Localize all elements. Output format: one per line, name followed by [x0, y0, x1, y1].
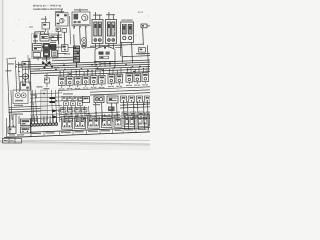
center riser b [67, 106, 70, 122]
wire meter down [45, 57, 47, 63]
coil condenser C2 [82, 38, 87, 49]
wire left bus c [9, 111, 41, 112]
scattered junction dots [15, 66, 145, 119]
cigarette lighter CL1 [114, 114, 122, 128]
left tag b [6, 70, 12, 71]
center riser c [71, 106, 74, 122]
coil 1 label [93, 15, 102, 16]
cluster tag b [50, 42, 56, 43]
cross wire e [30, 110, 62, 111]
distributor DST1 [95, 47, 115, 62]
wiper motor M3 [94, 96, 104, 103]
cluster tag a [33, 40, 38, 41]
right harness tag [138, 53, 145, 54]
bus wire 3 [22, 64, 150, 69]
heater switch S16 [107, 96, 118, 103]
bus wire 4 [30, 67, 150, 72]
right riser d [137, 101, 138, 130]
wire gen drop A [73, 35, 75, 47]
rc riser c [111, 103, 114, 122]
flasher unit FL2 [23, 74, 29, 80]
center riser a [63, 106, 66, 122]
wire coil1 drop A [94, 44, 96, 49]
wire left bus b [9, 109, 41, 110]
tail lamp L3 [129, 96, 135, 103]
regulator lower contact [62, 29, 67, 33]
bus wire 1 [18, 60, 150, 65]
generator label [74, 9, 88, 10]
pigtail caption [44, 88, 50, 89]
wire left bus a [9, 106, 41, 107]
mid riser c [51, 90, 52, 122]
switch stub junction dots [59, 66, 144, 73]
wire left riser E [28, 55, 29, 84]
stoplight switch S5 [67, 70, 74, 87]
generator G1 [72, 12, 90, 26]
cross wire c [30, 101, 62, 102]
stoplight switch S6 caption [75, 87, 81, 90]
ignition coil T1 [92, 15, 103, 44]
junction dots on buses [47, 61, 141, 75]
wire cluster left drop [30, 58, 33, 122]
wire generator top stem [79, 9, 81, 13]
wire left riser A [15, 60, 16, 92]
wire cluster bottom [33, 56, 51, 59]
horn H1 [141, 24, 150, 28]
bus junction knot [42, 61, 53, 69]
instrument cluster gauges [30, 120, 58, 126]
title block tag b [10, 140, 14, 141]
center riser f [84, 106, 87, 122]
stoplight switch S7 caption [83, 87, 89, 90]
cross wire f [30, 114, 62, 115]
brake warning switch S17 [88, 115, 100, 129]
wire to light switch a [39, 32, 41, 35]
mid riser d [55, 90, 56, 122]
left low band [52, 57, 73, 61]
center junction dots [65, 113, 85, 119]
ground strap marks [9, 134, 24, 135]
wire to light switch c [47, 30, 49, 35]
right riser e [143, 101, 144, 130]
license lamp L4 [137, 96, 143, 103]
bus tag a [33, 69, 40, 70]
center riser d [75, 106, 78, 122]
svg-text:B-14: B-14 [138, 11, 144, 14]
drop e [104, 116, 106, 117]
center bus b [60, 116, 92, 117]
harness sleeve vertical [41, 90, 48, 120]
caption row cell dividers [44, 127, 148, 136]
turn signal connector row A [62, 97, 83, 101]
wire coil2 drop B [112, 44, 114, 49]
wire gen drop AA [73, 26, 75, 29]
wire fuse out [58, 52, 67, 54]
wire left riser B [18, 62, 19, 92]
wire reg drop [57, 31, 60, 44]
pigtail marks left of switch row [45, 73, 50, 87]
fuel gauge sender FG1 [62, 116, 73, 130]
right bus a [120, 104, 150, 105]
wire coil1 drop B [99, 44, 101, 49]
oil pressure sender OP1 [75, 115, 86, 129]
door switch S12 caption [126, 84, 132, 87]
rc bus c [92, 112, 120, 113]
wire coil2 top [108, 12, 110, 15]
right bus b [120, 107, 150, 108]
drop a [65, 114, 67, 117]
svg-text:CHASSIS WIRING & CIRCUIT DIAGR: CHASSIS WIRING & CIRCUIT DIAGR [33, 8, 63, 11]
mid riser e [58, 90, 59, 122]
fuel pump FP1 [139, 48, 146, 53]
wire to light switch b [43, 32, 45, 35]
wire cluster top [35, 31, 45, 33]
under-caption bus [58, 87, 150, 91]
right riser a [123, 101, 124, 130]
bus tag c [37, 86, 43, 87]
rc bus e [92, 118, 120, 119]
generator terminal marks [74, 26, 87, 27]
ammeter M1 [44, 44, 50, 50]
rc riser b [101, 103, 104, 122]
rc bus d [92, 115, 120, 116]
key warning buzzer B1 [33, 53, 41, 58]
stoplight switch S4 caption [59, 88, 65, 91]
wire far-left riser [7, 58, 10, 133]
bus tag b [54, 67, 60, 68]
connector arrows CN2 [53, 109, 58, 118]
fusible link ladder FL1 [74, 46, 80, 67]
wire ammeter-gauge [50, 45, 51, 47]
wire ballast drop B [131, 43, 134, 63]
wiper switch S18 [51, 35, 58, 41]
wire wiper to bus [58, 34, 63, 36]
battery BT1 [8, 125, 16, 133]
backup lamp L6 [130, 112, 136, 119]
heater motor M4 [124, 113, 135, 127]
wire ballast left down [119, 43, 122, 57]
starter solenoid SL1 [21, 119, 31, 126]
mid riser b [35, 90, 36, 122]
bus wire y47 right stub [115, 46, 122, 48]
door switch S13 [134, 67, 141, 84]
drop f [114, 115, 116, 116]
bus wire y47 stub [87, 46, 96, 48]
right riser b [127, 101, 128, 130]
dimmer switch S3 [22, 62, 30, 68]
bus wire 2 [18, 62, 150, 67]
connector block CN1 [50, 97, 56, 103]
bus wire 6 [44, 72, 150, 76]
caption row text chunks [31, 129, 147, 134]
wire ign down [37, 58, 39, 61]
door switch S14 [142, 66, 149, 83]
right riser f [147, 101, 148, 130]
svg-text:Wired in for — TYPE F-40: Wired in for — TYPE F-40 [33, 4, 62, 7]
rc riser a [95, 103, 98, 122]
engine compartment enclosure [7, 118, 32, 137]
voltage regulator VR1 [56, 13, 69, 26]
cross wire d [30, 105, 62, 106]
jb drop e [114, 62, 116, 67]
wire coil2 drop A [108, 44, 110, 49]
title block [3, 138, 22, 143]
cluster junction dots [34, 37, 50, 59]
marker lamp L9 [145, 96, 151, 103]
rc tag [93, 104, 100, 105]
ballast resistor block R10 [121, 22, 134, 43]
bus tag d [96, 69, 102, 70]
unit tag [63, 93, 73, 94]
horn relay K2 [102, 114, 113, 128]
ignition coil T2 [106, 15, 117, 44]
wire left riser C [21, 68, 24, 85]
fuel gauge M6 [51, 45, 57, 50]
edge lamp L10 [146, 112, 150, 119]
turn lamp switch S11 caption [116, 85, 122, 88]
mid tag b [31, 120, 38, 121]
drop b [77, 114, 79, 117]
backup lamp L5 [122, 112, 128, 119]
wire horn drop [142, 28, 145, 45]
distributor caption [101, 63, 111, 64]
courtesy lamp L8 [83, 97, 90, 103]
turn lamp switch S11 [116, 68, 123, 85]
center riser g [88, 106, 91, 122]
headlamp L1 [13, 90, 28, 104]
dash cluster outline [32, 34, 59, 59]
bus wire y53 right [136, 52, 150, 55]
wire between units [69, 16, 70, 45]
stoplight switch S8 caption [91, 86, 97, 89]
drop c [86, 114, 88, 117]
rc bus a [90, 90, 150, 92]
wire stub C [24, 79, 26, 82]
bus wire y56 right [122, 56, 150, 57]
starter motor M2 [21, 82, 31, 90]
edge group [150, 112, 154, 126]
mid riser a [32, 90, 33, 122]
stoplight switch S4 [59, 71, 66, 88]
voltage gauge M5 [44, 51, 50, 57]
wire far right drop [147, 45, 148, 72]
relay connector row C [61, 108, 87, 112]
headlamp tag [14, 105, 23, 106]
cluster tag c [42, 59, 50, 60]
wire far-left top stub [9, 57, 17, 59]
wire ballast drop A [121, 43, 124, 63]
connector tag [41, 19, 47, 20]
door switch S12 [126, 67, 133, 84]
door switch S13 caption [134, 84, 140, 87]
main harness connector CN3 [42, 16, 50, 32]
wire far-left riser 2 [11, 90, 12, 120]
jb drop c [104, 62, 106, 67]
right riser c [133, 101, 134, 130]
stoplight switch S7 [83, 70, 90, 87]
ignition switch S2 [33, 44, 43, 52]
mid tag a [31, 95, 37, 96]
low band bottom wire [52, 59, 73, 62]
radio RD1 [137, 113, 148, 127]
stoplight switch S5 caption [67, 87, 73, 90]
wire regulator top stem [60, 10, 62, 13]
wire gen drop C [85, 28, 88, 45]
low band top wire [52, 56, 73, 59]
coil 2 label [106, 14, 115, 15]
wire gen drop B [79, 28, 82, 45]
stoplight switch S9 [99, 69, 106, 86]
gauge feed stems [32, 116, 57, 124]
turn lamp switch S10 [108, 68, 115, 85]
jb drop b [99, 62, 101, 67]
resistor pack R11 [108, 107, 115, 112]
door switch S14 caption [142, 83, 148, 86]
wire blob link [68, 47, 74, 49]
wire stub B [19, 75, 23, 77]
component baseline [30, 128, 150, 133]
wire switch to bus [49, 36, 62, 39]
center bus a [60, 113, 92, 114]
stoplight switch S8 [91, 69, 98, 86]
wire switch feed [34, 32, 36, 44]
tail lamp L2 [121, 96, 127, 103]
scan grain (decorative) [8, 14, 149, 139]
margin note [29, 27, 33, 28]
jb drop d [109, 62, 111, 67]
bus wire 5 [30, 69, 150, 74]
dome lamp L7 [138, 112, 144, 119]
regulator label [55, 11, 64, 12]
turn lamp switch S10 caption [108, 85, 114, 88]
rc riser d [116, 103, 119, 122]
center bus c [60, 118, 92, 119]
cross wire g [30, 117, 62, 118]
cross wire b [30, 97, 62, 98]
left tag a [8, 63, 14, 64]
wire gauge out [56, 46, 66, 48]
light switch S1 [40, 35, 49, 42]
wire reg drop 2 [63, 32, 65, 44]
stoplight switch S9 caption [99, 86, 105, 89]
wire left riser D [24, 68, 27, 85]
left bus tag [13, 114, 23, 115]
jb drop a [94, 62, 96, 67]
fuse block F1 [52, 51, 58, 58]
wire stub A [16, 63, 22, 65]
ladder tag a [64, 53, 70, 54]
drop d [94, 116, 96, 117]
ballast label [122, 20, 133, 21]
distributor side dots [91, 64, 97, 66]
center riser e [80, 106, 83, 122]
cutout relay K3 [56, 28, 61, 31]
wire coil1 top [94, 12, 96, 15]
rc bus b [90, 93, 150, 95]
junction terminal block TB1 [21, 127, 31, 133]
cross wire a [30, 93, 62, 94]
schematic bottom border [4, 132, 150, 138]
rule below title block [22, 139, 151, 141]
ladder tag b [64, 57, 69, 58]
ignition resistor RB1 [62, 45, 69, 52]
turn signal connector row B [64, 102, 83, 106]
enclosure feed wires [10, 112, 19, 127]
bus wire y45 right [90, 44, 143, 46]
title block tag a [4, 140, 8, 141]
cluster pilot lamp PL1 [34, 35, 38, 38]
stoplight switch S6 [75, 70, 82, 87]
wire sw-ammeter [42, 46, 44, 48]
